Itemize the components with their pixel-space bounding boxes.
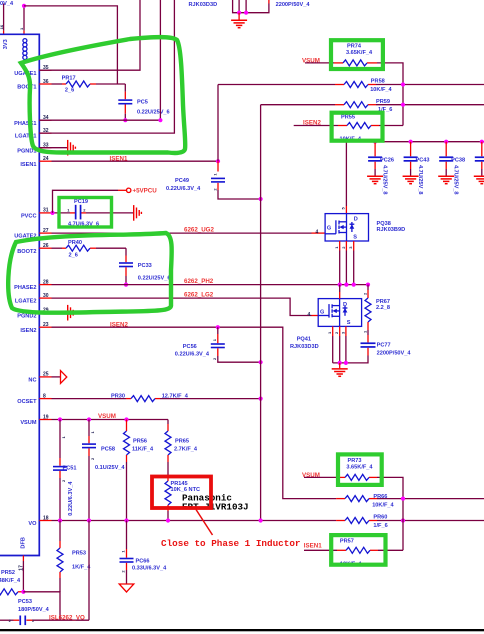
pin 25 NC — [28, 372, 51, 384]
wire pin1 to BOOT1 — [24, 6, 117, 84]
junction PC56/OCSET net — [259, 360, 263, 364]
svg-text:PHASE1: PHASE1 — [14, 121, 36, 127]
capacitor PC19 — [67, 199, 99, 227]
svg-text:PR74: PR74 — [347, 44, 362, 50]
wire BOOT2 row — [52, 247, 127, 249]
junction OCSET — [259, 397, 263, 401]
svg-text:16: 16 — [0, 24, 4, 29]
junction VSUM col1 — [58, 417, 62, 421]
svg-text:5: 5 — [341, 207, 346, 210]
svg-text:4: 4 — [308, 312, 311, 318]
junction VO col4 — [166, 518, 170, 522]
svg-text:BOOT1: BOOT1 — [17, 85, 36, 91]
svg-text:ISEN2: ISEN2 — [20, 328, 36, 334]
wire bracket ground stem — [238, 13, 240, 20]
svg-text:G: G — [327, 226, 331, 232]
wire PC53 row — [0, 619, 89, 621]
wire PGND1 row — [39, 147, 67, 149]
svg-text:RJK03B9D: RJK03B9D — [377, 227, 406, 233]
svg-text:2200P/50V_4: 2200P/50V_4 — [377, 351, 412, 357]
junction PR66 right — [401, 497, 405, 501]
svg-text:2.2_8: 2.2_8 — [376, 305, 390, 311]
wire OCSET/VO net vertical — [260, 105, 262, 521]
svg-text:30: 30 — [43, 293, 49, 299]
svg-text:0.33U/6.3V_4: 0.33U/6.3V_4 — [132, 566, 167, 572]
junction VO col3 — [124, 518, 128, 522]
junction rail PC44 — [480, 140, 484, 144]
svg-text:BOOT2: BOOT2 — [17, 249, 36, 255]
pin 34 PHASE1 — [14, 115, 51, 127]
svg-text:1: 1 — [327, 331, 332, 334]
ground PVCC — [134, 205, 142, 221]
power +5VPCU — [127, 188, 158, 195]
wire PQ41 drain — [339, 285, 341, 299]
svg-text:25: 25 — [43, 372, 49, 378]
transistor PQ38 — [325, 214, 405, 241]
wire LGATE2 row — [52, 298, 319, 315]
svg-text:ISL6262_VO: ISL6262_VO — [49, 615, 85, 622]
capacitor PC5 — [118, 84, 169, 120]
svg-text:4.7U/25V_8: 4.7U/25V_8 — [381, 165, 387, 195]
svg-text:3.65K/F_4: 3.65K/F_4 — [346, 50, 373, 56]
resistor PR56 — [124, 420, 155, 521]
wire PHASE2 row — [52, 284, 369, 286]
resistor PR65 — [165, 420, 198, 477]
svg-text:PR66: PR66 — [373, 494, 387, 500]
wire PGND2 row — [39, 312, 67, 314]
svg-text:6262_UG2: 6262_UG2 — [184, 226, 214, 233]
resistor PR17 — [62, 76, 90, 94]
svg-text:27: 27 — [43, 228, 49, 234]
svg-text:18: 18 — [43, 515, 49, 521]
wire UGATE2 row — [52, 232, 326, 234]
svg-text:PC56: PC56 — [183, 344, 197, 350]
junction VSUM col2 — [87, 417, 91, 421]
svg-text:36: 36 — [43, 79, 49, 85]
svg-text:PQ41: PQ41 — [297, 336, 311, 342]
svg-text:2: 2 — [362, 292, 367, 295]
wire ISEN1 to PR58 vertical — [217, 85, 219, 162]
capacitor PC66 — [120, 521, 168, 585]
junction PC49/OCSET net — [259, 197, 263, 201]
svg-text:23: 23 — [43, 322, 49, 328]
IC coil symbol — [23, 39, 27, 60]
junction rail PC43 — [409, 140, 413, 144]
wire DFB node — [23, 592, 60, 620]
svg-text:PR56: PR56 — [133, 438, 147, 444]
wire PQ41 ground stem — [339, 363, 341, 368]
resistor PR145 (NTC) — [165, 476, 200, 521]
svg-text:PC58: PC58 — [101, 446, 115, 452]
junction PHASE2 p3 — [352, 283, 356, 287]
resistor PR67 — [362, 285, 390, 335]
wire PR59 row — [261, 104, 484, 106]
junction VO OCSET-net — [259, 518, 263, 522]
svg-text:2.7K/F_4: 2.7K/F_4 — [174, 446, 198, 452]
svg-text:PC26: PC26 — [380, 158, 394, 164]
svg-text:2: 2 — [90, 457, 95, 460]
wire VO row — [52, 520, 484, 522]
capacitor PC56 — [175, 327, 261, 362]
junction rail PC38 — [444, 140, 448, 144]
ground PC43 — [403, 176, 419, 183]
resistor PR74 — [343, 44, 373, 66]
svg-text:2200P/50V_4: 2200P/50V_4 — [276, 2, 311, 8]
ground PQ41 — [332, 369, 348, 376]
capacitor PC43 — [404, 142, 430, 195]
svg-text:0.22U/6.3V_4: 0.22U/6.3V_4 — [175, 351, 210, 357]
wire +5VPCU — [53, 190, 127, 213]
svg-text:RJK03D3D: RJK03D3D — [189, 2, 218, 8]
svg-text:4: 4 — [316, 229, 319, 235]
annotation green rect PR57 — [331, 535, 385, 565]
junction VSUM col3 — [124, 417, 128, 421]
junction bracket b — [244, 11, 248, 15]
pin 36 BOOT1 — [17, 79, 51, 91]
svg-text:0.22U/6.3V_4: 0.22U/6.3V_4 — [68, 481, 74, 516]
resistor PR30 — [111, 394, 189, 402]
svg-text:2: 2 — [61, 479, 66, 482]
wire PQ38 source pins — [334, 241, 354, 285]
junction PC5/PHASE1 — [123, 118, 127, 122]
capacitor PC77 — [333, 335, 412, 363]
junction VO col2 — [87, 518, 91, 522]
annotation green rect PC19 — [59, 198, 112, 228]
svg-text:6262_LG2: 6262_LG2 — [184, 292, 214, 299]
svg-text:VSUM: VSUM — [98, 413, 116, 420]
svg-text:2_6: 2_6 — [65, 88, 74, 94]
svg-text:PR59: PR59 — [376, 99, 390, 105]
pin 28 PHASE2 — [14, 279, 51, 291]
resistor PR53 — [57, 521, 91, 592]
junction PR59 right — [401, 103, 405, 107]
svg-text:PR40: PR40 — [68, 240, 82, 246]
svg-text:2: 2 — [83, 208, 86, 213]
svg-text:26: 26 — [43, 243, 49, 249]
frame border bottom — [0, 629, 484, 631]
svg-text:31: 31 — [43, 208, 49, 214]
ground PC44 (clipped) — [474, 176, 484, 183]
wire pin 1 drop — [23, 6, 25, 34]
annotation green rect PR74 — [331, 40, 383, 69]
capacitor PC58 — [82, 420, 125, 521]
annotation green rect PR55 — [332, 113, 383, 141]
wire NC stub — [52, 376, 61, 378]
svg-text:S: S — [347, 320, 351, 326]
svg-text:1: 1 — [362, 330, 367, 333]
svg-text:10K/F_4: 10K/F_4 — [372, 503, 394, 509]
wire PR55 row — [294, 125, 403, 127]
svg-text:ISEN1: ISEN1 — [304, 542, 322, 549]
wire ISEN2 row — [52, 327, 337, 498]
svg-text:PR73: PR73 — [348, 458, 362, 464]
capacitor PC33 — [119, 248, 170, 284]
svg-text:3V3: 3V3 — [3, 39, 9, 49]
svg-text:NC: NC — [28, 378, 36, 384]
wire LGATE1 row — [39, 0, 174, 133]
junction gnd p2 — [338, 361, 342, 365]
svg-text:PR55: PR55 — [341, 115, 355, 121]
svg-text:RJK03D3D: RJK03D3D — [290, 344, 319, 350]
svg-text:0.22U/25V_6: 0.22U/25V_6 — [138, 275, 171, 281]
wire PR74 row — [305, 63, 403, 126]
wire UGATE1 row — [39, 0, 140, 70]
svg-text:PR60: PR60 — [373, 515, 387, 521]
capacitor PC26 — [368, 142, 394, 195]
svg-text:11K/F_4: 11K/F_4 — [132, 446, 154, 452]
op-amp U1 controller IC outline — [0, 34, 39, 555]
svg-text:0.22U/6.3V_4: 0.22U/6.3V_4 — [166, 186, 201, 192]
pin 33 PGND1 — [17, 143, 51, 155]
junction PHASE2 p1 — [338, 283, 342, 287]
svg-text:PR30: PR30 — [111, 394, 125, 400]
svg-text:1K/F_4: 1K/F_4 — [72, 565, 91, 571]
wire PHASE1 row — [39, 0, 160, 120]
capacitor PC38 — [439, 142, 465, 195]
svg-text:VO: VO — [28, 521, 37, 527]
junction ISEN2/PC56 — [216, 325, 220, 329]
svg-text:180P/50V_4: 180P/50V_4 — [18, 607, 50, 613]
svg-text:PC53: PC53 — [18, 599, 32, 605]
svg-text:D: D — [343, 302, 347, 308]
svg-text:PR53: PR53 — [72, 551, 86, 557]
wire VSUM row — [52, 419, 169, 421]
svg-text:PR65: PR65 — [175, 438, 189, 444]
pin 17 DFB — [19, 537, 27, 592]
wire PR66 row — [336, 498, 484, 500]
junction PVCC — [50, 211, 54, 215]
svg-text:3: 3 — [348, 246, 353, 249]
svg-text:PR17: PR17 — [62, 76, 76, 82]
wire PR58 row — [218, 84, 484, 86]
junction PHASE1 — [158, 118, 162, 122]
svg-text:PR58: PR58 — [371, 79, 385, 85]
svg-text:OCSET: OCSET — [17, 399, 37, 405]
pin 32 LGATE1 — [15, 128, 52, 140]
ground PC66 triangle — [119, 584, 134, 592]
svg-text:1: 1 — [90, 431, 95, 434]
junction PHASE2 p2 — [344, 283, 348, 287]
svg-text:PC33: PC33 — [138, 263, 152, 269]
svg-text:PC19: PC19 — [74, 199, 88, 205]
svg-text:PR52: PR52 — [1, 570, 15, 576]
svg-text:28: 28 — [43, 279, 49, 285]
svg-text:19: 19 — [43, 414, 49, 420]
svg-text:D: D — [354, 217, 358, 223]
svg-text:VSUM: VSUM — [20, 420, 37, 426]
ground PC38 — [438, 176, 454, 183]
svg-text:G: G — [320, 310, 324, 316]
svg-text:PVCC: PVCC — [21, 214, 37, 220]
wire BOOT1 row — [52, 83, 126, 85]
wire PVCC row — [52, 212, 134, 214]
junction rail PC26 — [373, 140, 377, 144]
pin 8 OCSET — [17, 393, 51, 405]
svg-text:PC66: PC66 — [136, 559, 150, 565]
svg-text:Close to Phase 1 Inductor: Close to Phase 1 Inductor — [161, 538, 300, 549]
wire top pin 16 — [3, 4, 5, 35]
svg-text:PR67: PR67 — [376, 299, 390, 305]
junction pin1/BOOT1 net — [22, 4, 26, 8]
capacitor PC44 (clipped) — [475, 142, 484, 176]
svg-text:PC5: PC5 — [137, 99, 148, 105]
pin 26 BOOT2 — [17, 243, 51, 255]
junction PC33/PHASE2 — [124, 283, 128, 287]
svg-text:2: 2 — [212, 357, 217, 360]
junction PR74/PR58 — [401, 82, 405, 86]
ground PGND1 — [68, 140, 76, 156]
junction PR60 right — [401, 518, 405, 522]
svg-text:24: 24 — [43, 156, 49, 162]
resistor PR66 — [345, 494, 395, 509]
svg-text:10K/F_4: 10K/F_4 — [370, 87, 392, 93]
resistor PR58 — [344, 79, 393, 93]
pin 23 ISEN2 — [20, 322, 51, 334]
svg-text:1/F_6: 1/F_6 — [373, 523, 387, 529]
pin 30 LGATE2 — [15, 293, 52, 305]
resistor PR73 — [345, 458, 373, 480]
pin 19 VSUM — [20, 414, 51, 426]
ground top — [231, 20, 247, 27]
svg-text:4.7U/25V_8: 4.7U/25V_8 — [417, 165, 423, 195]
svg-text:2: 2 — [341, 246, 346, 249]
junction ISEN1 — [216, 159, 220, 163]
wire OCSET row — [52, 398, 261, 400]
resistor PR60 — [345, 515, 388, 529]
svg-text:1: 1 — [334, 246, 339, 249]
junction gnd p3 — [344, 361, 348, 365]
junction VO col1 — [58, 518, 62, 522]
svg-text:ISEN1: ISEN1 — [20, 162, 36, 168]
svg-text:3: 3 — [340, 331, 345, 334]
resistor PR52 — [0, 570, 23, 595]
resistor PR55 — [340, 115, 372, 143]
svg-text:2.48K/F_4: 2.48K/F_4 — [0, 578, 21, 584]
svg-text:0V_4: 0V_4 — [0, 1, 14, 7]
svg-text:8: 8 — [43, 393, 46, 399]
wire PR57 row — [304, 549, 403, 551]
pin 24 ISEN1 — [20, 156, 51, 168]
ground PC26 — [367, 176, 383, 183]
annotation red box PR145 — [152, 477, 211, 509]
ground PGND2 — [68, 305, 76, 321]
svg-text:3.65K/F_4: 3.65K/F_4 — [346, 465, 373, 471]
junction DFB/PR52 — [21, 590, 25, 594]
wire ISEN1 row — [52, 160, 219, 162]
pin 27 UGATE2 — [14, 228, 51, 240]
svg-text:1: 1 — [212, 173, 217, 176]
resistor PR57 — [340, 539, 370, 568]
svg-text:2: 2 — [334, 331, 339, 334]
transistor PQ41 — [290, 299, 362, 350]
wire rail to PQ38 drain — [341, 142, 347, 214]
junction PHASE2 PR67 — [366, 283, 370, 287]
svg-text:S: S — [353, 235, 357, 241]
svg-text:PR57: PR57 — [340, 539, 354, 545]
svg-text:PR145: PR145 — [171, 481, 188, 487]
svg-text:PC49: PC49 — [175, 178, 189, 184]
wire PQ41 source pins — [327, 326, 346, 363]
svg-text:6262_PH2: 6262_PH2 — [184, 278, 214, 285]
annotation green rect PR73 — [338, 454, 382, 485]
svg-text:PHASE2: PHASE2 — [14, 285, 36, 291]
svg-text:2: 2 — [121, 570, 126, 573]
svg-text:1: 1 — [212, 338, 217, 341]
pin 31 PVCC — [21, 208, 52, 220]
no-connect symbol NC — [61, 371, 67, 384]
svg-text:PC51: PC51 — [63, 465, 77, 471]
svg-text:2: 2 — [212, 188, 217, 191]
pin 18 VO — [28, 515, 51, 527]
svg-text:PC77: PC77 — [377, 343, 391, 349]
capacitor PC51 — [53, 420, 77, 521]
svg-text:+5VPCU: +5VPCU — [133, 188, 158, 195]
annotation leader line — [196, 510, 213, 536]
svg-text:ISEN1: ISEN1 — [110, 156, 128, 163]
svg-text:1: 1 — [67, 208, 70, 213]
svg-text:0.1U/25V_4: 0.1U/25V_4 — [95, 465, 125, 471]
top bracket wires — [233, 0, 269, 13]
svg-text:PC43: PC43 — [416, 158, 430, 164]
svg-text:LGATE2: LGATE2 — [15, 299, 37, 305]
svg-text:DFB: DFB — [21, 537, 27, 549]
svg-text:4.7U/25V_8: 4.7U/25V_8 — [452, 165, 458, 195]
svg-text:2_6: 2_6 — [69, 252, 78, 258]
svg-text:1: 1 — [121, 550, 126, 553]
svg-text:1: 1 — [61, 436, 66, 439]
svg-text:12.7K/F_4: 12.7K/F_4 — [162, 394, 189, 400]
capacitor PC49 — [166, 161, 261, 199]
wire PR73 row — [304, 477, 403, 550]
pin 29 PGND2 — [17, 308, 51, 320]
annotation green loop 2 — [8, 233, 171, 313]
annotation green loop 1 — [21, 37, 185, 153]
resistor PR59 — [344, 99, 392, 113]
pin 35 UGATE1 — [14, 65, 51, 77]
svg-text:ISEN2: ISEN2 — [110, 322, 128, 329]
wire VO to PC53 vertical — [88, 521, 90, 621]
svg-text:0.22U/25V_6: 0.22U/25V_6 — [137, 109, 170, 115]
svg-text:PC38: PC38 — [451, 158, 465, 164]
junction bracket a — [237, 11, 241, 15]
resistor PR40 — [66, 240, 90, 258]
wire capacitor-bank rail — [346, 141, 484, 143]
capacitor PC53 — [9, 599, 50, 625]
